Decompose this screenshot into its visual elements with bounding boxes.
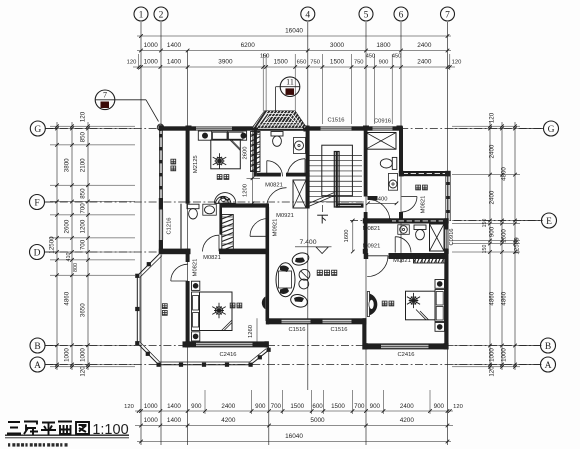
svg-text:1000: 1000	[80, 348, 87, 362]
top dim extension lines	[262, 54, 264, 111]
svg-text:C2416: C2416	[219, 352, 236, 358]
armchair top recreation room	[291, 251, 311, 267]
flower decor bottom-left bed	[212, 303, 225, 319]
svg-text:3650: 3650	[80, 303, 87, 317]
headboard pillows top-left bed	[198, 131, 246, 140]
svg-text:2600: 2600	[243, 147, 249, 160]
svg-text:1400: 1400	[167, 42, 182, 49]
north bathroom east wall / axis4 wall	[306, 129, 310, 177]
svg-text:900: 900	[379, 60, 389, 66]
label bedroom right	[382, 301, 387, 306]
axis F horizontal line	[45, 201, 365, 203]
svg-text:4860: 4860	[501, 291, 508, 305]
svg-text:1600: 1600	[344, 230, 350, 243]
svg-text:2400: 2400	[417, 42, 432, 49]
window C1516 stair north	[321, 126, 352, 130]
svg-text:C0916: C0916	[449, 228, 455, 245]
axis bubble 6	[394, 7, 408, 21]
svg-text:16040: 16040	[285, 433, 303, 440]
svg-text:11: 11	[286, 77, 294, 86]
octagonal balcony rail inner	[140, 256, 266, 362]
svg-text:1400: 1400	[375, 197, 388, 203]
flower decor top-left bed	[213, 153, 226, 169]
window C2416 right bedroom	[381, 344, 429, 349]
svg-text:850: 850	[80, 188, 87, 199]
wall axis 6 beside balcony door	[399, 212, 403, 222]
north bathroom west wall	[254, 129, 257, 177]
svg-text:1260: 1260	[248, 325, 254, 338]
svg-text:1500: 1500	[274, 59, 289, 66]
svg-text:120: 120	[80, 111, 87, 122]
wardrobe top-left bedroom east	[251, 132, 261, 172]
nightstands bottom-left bed	[192, 281, 200, 290]
wall axis 3 upper bedroom	[186, 129, 190, 204]
interior wall corridor y205	[221, 203, 269, 207]
svg-text:D: D	[34, 248, 41, 258]
toilet north bathroom	[271, 132, 283, 137]
top dim row overall 16040	[137, 35, 451, 37]
stair hall east wall axis 5 upper	[364, 129, 368, 197]
sink west bathroom	[203, 204, 217, 215]
svg-text:120: 120	[489, 112, 496, 123]
svg-text:120: 120	[124, 404, 134, 410]
svg-text:2: 2	[159, 10, 164, 20]
svg-text:4200: 4200	[221, 417, 236, 424]
svg-text:2400: 2400	[489, 190, 496, 204]
label recreation room	[317, 270, 322, 275]
window C2416 left bedroom	[196, 342, 253, 347]
axis grid vertical line 1	[140, 22, 142, 445]
svg-text:E: E	[546, 217, 552, 227]
tea table recreation room	[299, 269, 310, 280]
svg-text:C1516: C1516	[288, 327, 305, 333]
svg-text:M0821: M0821	[203, 255, 221, 261]
axis bubble F left	[30, 195, 45, 210]
svg-text:700: 700	[271, 403, 282, 410]
svg-text:M0821: M0821	[265, 183, 283, 189]
axis bubble E right	[542, 213, 557, 228]
svg-text:M2125: M2125	[193, 155, 199, 173]
right balcony east rail	[445, 176, 447, 220]
stair hall west wall lower	[306, 177, 310, 209]
title underline	[5, 434, 129, 436]
axis bubble B left	[30, 338, 45, 353]
svg-text:750: 750	[310, 60, 320, 66]
left dim extension lines	[50, 125, 135, 127]
detail callout 7	[95, 90, 115, 110]
axis D horizontal line	[45, 251, 185, 253]
right balcony north wall	[399, 171, 451, 176]
svg-text:1500: 1500	[330, 59, 345, 66]
axis bubble B right	[541, 338, 556, 353]
left dim column lines	[56, 122, 58, 370]
axis grid vertical line 7	[447, 22, 449, 445]
interior wall E right side	[364, 218, 391, 223]
bottom dim row 2	[135, 425, 453, 427]
svg-text:G: G	[34, 125, 41, 135]
bottom dim row 3 overall 16040	[137, 441, 451, 443]
svg-text:120: 120	[453, 404, 463, 410]
svg-text:M0821: M0821	[393, 258, 411, 264]
svg-text:M0821: M0821	[363, 226, 381, 232]
stair bottom rail	[336, 203, 364, 207]
svg-text:6: 6	[399, 10, 404, 20]
north bathroom south wall	[257, 173, 281, 177]
label bedroom bottom-left	[230, 303, 235, 308]
svg-text:1200: 1200	[243, 184, 249, 197]
axis G horizontal line	[45, 128, 543, 130]
axis bubble A right	[541, 357, 556, 372]
svg-text:2600: 2600	[64, 219, 71, 233]
interior dim 2600	[252, 129, 254, 204]
svg-text:900: 900	[255, 403, 266, 410]
top-right bathroom south wall	[368, 196, 378, 200]
label bedroom top-left	[217, 175, 222, 180]
detail callout 11	[280, 77, 300, 97]
door arc balcony top-right M0821	[402, 197, 418, 213]
svg-text:1000: 1000	[501, 348, 508, 362]
axis bubble G left	[30, 121, 45, 136]
svg-text:650: 650	[297, 60, 307, 66]
svg-text:1400: 1400	[167, 417, 182, 424]
svg-text:3000: 3000	[330, 42, 345, 49]
window C0916 east wall	[444, 230, 448, 249]
bed top-left bedroom	[211, 140, 241, 169]
armchair bottom recreation room	[289, 292, 309, 309]
flower decor right bed	[407, 293, 420, 308]
staircase railing	[322, 145, 353, 196]
door arc north bathroom left leaf	[267, 161, 283, 177]
bed bottom-left bedroom	[200, 292, 233, 331]
svg-text:5: 5	[364, 10, 369, 20]
wardrobe right bedroom north	[414, 256, 446, 264]
svg-text:M0821: M0821	[421, 196, 427, 214]
axis bubble 1	[134, 7, 148, 21]
svg-text:M0921: M0921	[273, 219, 279, 237]
bay window canopy hatched trapezoid	[211, 107, 365, 130]
svg-text:700: 700	[80, 239, 87, 250]
west wall left bedroom on axis 3	[186, 253, 190, 262]
svg-text:1000: 1000	[489, 348, 496, 362]
south wall right bedroom	[364, 343, 449, 349]
window C1516 recreation south b	[323, 319, 352, 324]
svg-text:850: 850	[80, 131, 87, 142]
sink right bathroom	[398, 225, 410, 235]
right dim extension lines	[452, 125, 520, 127]
svg-text:750: 750	[354, 60, 364, 66]
bottom dim row 1	[135, 410, 453, 412]
axis grid vertical line 3	[187, 50, 189, 445]
wall connecting recreation to bedroom on axis 5	[362, 321, 366, 350]
svg-text:120: 120	[489, 366, 496, 377]
svg-text:A: A	[545, 361, 552, 371]
door arc right bathroom	[395, 237, 411, 253]
svg-text:1600: 1600	[501, 229, 508, 243]
sink top-right bathroom	[388, 174, 397, 191]
door arc balcony from left bedroom M0821	[171, 264, 188, 281]
svg-text:2400: 2400	[489, 144, 496, 158]
svg-text:800: 800	[73, 263, 79, 272]
wardrobe left bedroom corridor side	[222, 215, 234, 251]
svg-text:450: 450	[366, 54, 375, 60]
bathroom east wall x220	[219, 204, 222, 235]
svg-text:1400: 1400	[167, 403, 181, 410]
stair direction mark xia	[322, 205, 324, 212]
svg-text:B: B	[34, 342, 40, 352]
svg-text:1000: 1000	[64, 348, 71, 362]
headboard pillows right bed	[435, 290, 445, 322]
axis bubble G right	[544, 121, 559, 136]
svg-text:C1216: C1216	[167, 217, 173, 234]
axis bubble 7	[441, 7, 455, 21]
svg-text:2400: 2400	[417, 59, 432, 66]
svg-text:3900: 3900	[218, 59, 233, 66]
svg-text:900: 900	[370, 403, 381, 410]
svg-text:A: A	[34, 361, 41, 371]
svg-text:7: 7	[103, 91, 107, 100]
axis E horizontal line	[350, 220, 543, 222]
fold bottom-left bed	[222, 320, 233, 331]
axis bubble D left	[30, 245, 45, 260]
svg-text:4860: 4860	[489, 291, 496, 305]
label balcony bottom-left	[162, 304, 167, 309]
svg-text:450: 450	[392, 54, 401, 60]
wall axis 6 upper	[399, 129, 403, 173]
svg-text:4: 4	[305, 10, 310, 20]
top dim row 3	[133, 66, 455, 68]
bottom dim extension lines	[204, 390, 206, 414]
window C1516 recreation south a	[282, 319, 311, 324]
duct shaft with X right bathroom	[430, 224, 445, 251]
toilet top-right bathroom	[392, 157, 397, 169]
fold right bed	[416, 310, 429, 320]
svg-text:2400: 2400	[221, 403, 235, 410]
svg-text:12500: 12500	[514, 237, 521, 255]
tv right bedroom on west wall	[370, 294, 378, 316]
svg-text:1000: 1000	[144, 417, 159, 424]
bed right bedroom	[406, 291, 436, 320]
svg-text:120: 120	[452, 60, 462, 66]
octagonal balcony rail outer	[137, 252, 268, 365]
svg-text:1000: 1000	[144, 403, 158, 410]
svg-text:3800: 3800	[64, 158, 71, 172]
axis grid vertical line 5	[365, 22, 367, 445]
door arc recreation M0921	[250, 219, 268, 237]
right dim column lines	[489, 122, 491, 370]
svg-text:150: 150	[260, 54, 269, 60]
axis A horizontal line	[45, 364, 543, 366]
svg-text:120: 120	[127, 60, 137, 66]
svg-text:G: G	[548, 125, 555, 135]
interior wall D bathroom bottom	[161, 249, 191, 255]
svg-text:M0921: M0921	[276, 213, 294, 219]
west exterior wall on axis 2	[159, 198, 163, 210]
svg-text:F: F	[34, 198, 39, 208]
svg-text:4800: 4800	[501, 167, 508, 181]
svg-text:4200: 4200	[400, 417, 415, 424]
svg-text:150: 150	[482, 219, 488, 228]
axis B horizontal line	[45, 345, 543, 347]
svg-text:1000: 1000	[144, 42, 159, 49]
svg-text:12500: 12500	[49, 236, 56, 254]
svg-text:C1516: C1516	[330, 327, 347, 333]
duct shaft with X top-right bathroom	[366, 133, 396, 150]
north exterior wall on axis G	[159, 126, 196, 130]
label balcony right	[416, 185, 421, 190]
svg-text:5000: 5000	[310, 417, 325, 424]
svg-text:7: 7	[445, 10, 450, 20]
east exterior wall below E	[444, 221, 448, 230]
south wall recreation room	[267, 318, 367, 324]
svg-text:700: 700	[354, 403, 365, 410]
interior dim 1600	[352, 221, 354, 252]
svg-text:7.400: 7.400	[299, 239, 316, 246]
door arc corridor	[267, 188, 287, 208]
svg-text:1200: 1200	[80, 219, 87, 233]
staircase center stringer	[334, 152, 339, 208]
headboard pillows bottom-left bed	[192, 292, 200, 331]
svg-text:1000: 1000	[144, 59, 159, 66]
right bedroom north wall	[364, 253, 369, 259]
svg-text:C1516: C1516	[327, 118, 344, 124]
sink north bathroom	[294, 138, 306, 154]
balcony rail posts	[135, 274, 139, 278]
bed fold top-left	[230, 140, 240, 151]
axis bubble 2	[154, 7, 168, 21]
svg-text:1500: 1500	[290, 403, 304, 410]
axis bubble 5	[359, 7, 373, 21]
svg-text:900: 900	[489, 226, 496, 237]
door arc north bathroom right leaf	[287, 159, 305, 177]
svg-text:6200: 6200	[241, 42, 256, 49]
wall axis 5 mid	[364, 212, 368, 253]
sofa large recreation room	[276, 263, 295, 297]
svg-text:C2416: C2416	[397, 352, 414, 358]
axis grid vertical line 6	[400, 22, 402, 263]
toilet west bathroom	[187, 204, 199, 209]
title third floor plan	[7, 422, 89, 435]
staircase treads	[309, 155, 363, 157]
interior dim 1260	[256, 318, 258, 345]
svg-text:1400: 1400	[167, 59, 182, 66]
svg-text:700: 700	[80, 203, 87, 214]
toilet right bathroom	[414, 225, 426, 230]
svg-text:M0921: M0921	[363, 244, 381, 250]
top dim row 2	[137, 50, 451, 52]
wall south of left bedroom	[183, 341, 269, 347]
wash basin corridor half round	[216, 196, 232, 203]
svg-text:410: 410	[66, 253, 72, 262]
bathroom west thin partition	[180, 204, 182, 249]
svg-text:1500: 1500	[331, 403, 345, 410]
svg-text:900: 900	[191, 403, 202, 410]
bay window band north	[256, 126, 306, 131]
svg-text:120: 120	[80, 366, 87, 377]
svg-text:1800: 1800	[376, 42, 391, 49]
window C0916 north	[373, 126, 393, 130]
tv left bedroom on east wall	[262, 297, 266, 310]
axis grid vertical line 4	[307, 22, 309, 390]
svg-text:M0821: M0821	[193, 259, 199, 277]
grid line at wall 6600	[268, 352, 270, 445]
top-left balcony west rail	[158, 129, 160, 199]
dresser top-left bedroom	[214, 193, 235, 204]
axis bubble A left	[30, 357, 45, 372]
svg-text:1: 1	[139, 10, 144, 20]
svg-text:2100: 2100	[80, 158, 87, 172]
duct shaft with X beside stairs	[293, 180, 306, 208]
label balcony top-left	[171, 159, 176, 164]
axis bubble 4	[301, 7, 315, 21]
svg-text:900: 900	[434, 403, 445, 410]
nightstands right bed	[435, 280, 445, 289]
svg-text:600: 600	[312, 403, 323, 410]
window C1216 west wall	[159, 210, 163, 241]
svg-text:C0916: C0916	[374, 119, 391, 125]
axis grid vertical line 2	[160, 22, 162, 445]
staircase break line	[309, 196, 335, 207]
svg-text:150: 150	[482, 245, 488, 254]
corner column posts	[158, 125, 163, 130]
svg-text:4860: 4860	[64, 291, 71, 305]
svg-text:16040: 16040	[285, 27, 303, 34]
door arc right bedroom M0821	[367, 256, 388, 277]
nightstand lamps top-left bed	[202, 133, 207, 138]
door arc bathroom D-wall	[203, 235, 220, 251]
window C2416 bedroom north	[196, 126, 232, 130]
title note line	[8, 443, 68, 446]
wall west of recreation room	[266, 207, 270, 321]
door arc corridor to E M0821	[368, 200, 390, 222]
svg-text:B: B	[545, 342, 551, 352]
svg-text:2400: 2400	[400, 403, 414, 410]
